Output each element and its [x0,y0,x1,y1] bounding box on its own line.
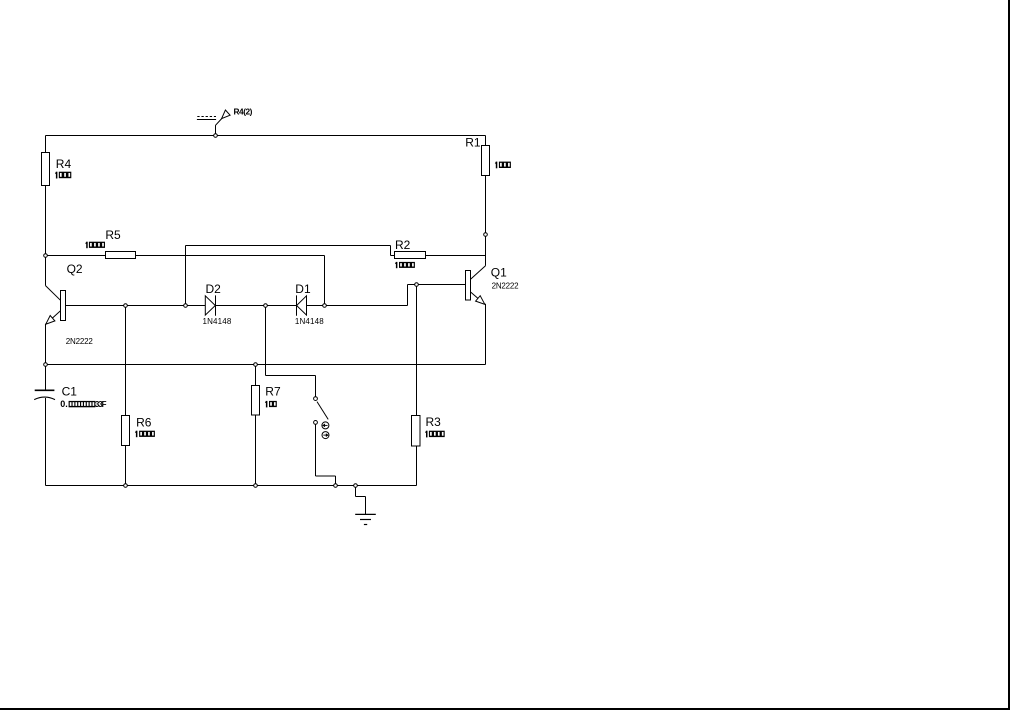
svg-text:1N4148: 1N4148 [295,317,324,326]
svg-text:2N2222: 2N2222 [66,337,94,346]
svg-text:R7: R7 [265,385,281,399]
svg-text:R1: R1 [465,135,481,149]
svg-text:1N4148: 1N4148 [203,317,232,326]
svg-text:R5: R5 [105,228,121,242]
svg-text:R4(2): R4(2) [234,107,253,117]
svg-text:D2: D2 [206,282,222,296]
svg-text:D1: D1 [295,282,311,296]
svg-text:R6: R6 [136,416,152,430]
svg-text:Q2: Q2 [67,262,83,276]
svg-text:R2: R2 [395,238,411,252]
svg-text:F: F [102,400,107,409]
svg-text:R3: R3 [426,415,442,429]
svg-text:0.: 0. [60,399,68,409]
svg-text:C1: C1 [62,385,78,399]
svg-text:2N2222: 2N2222 [492,281,520,290]
svg-text:R4: R4 [56,157,72,171]
svg-text:Q1: Q1 [491,266,507,280]
